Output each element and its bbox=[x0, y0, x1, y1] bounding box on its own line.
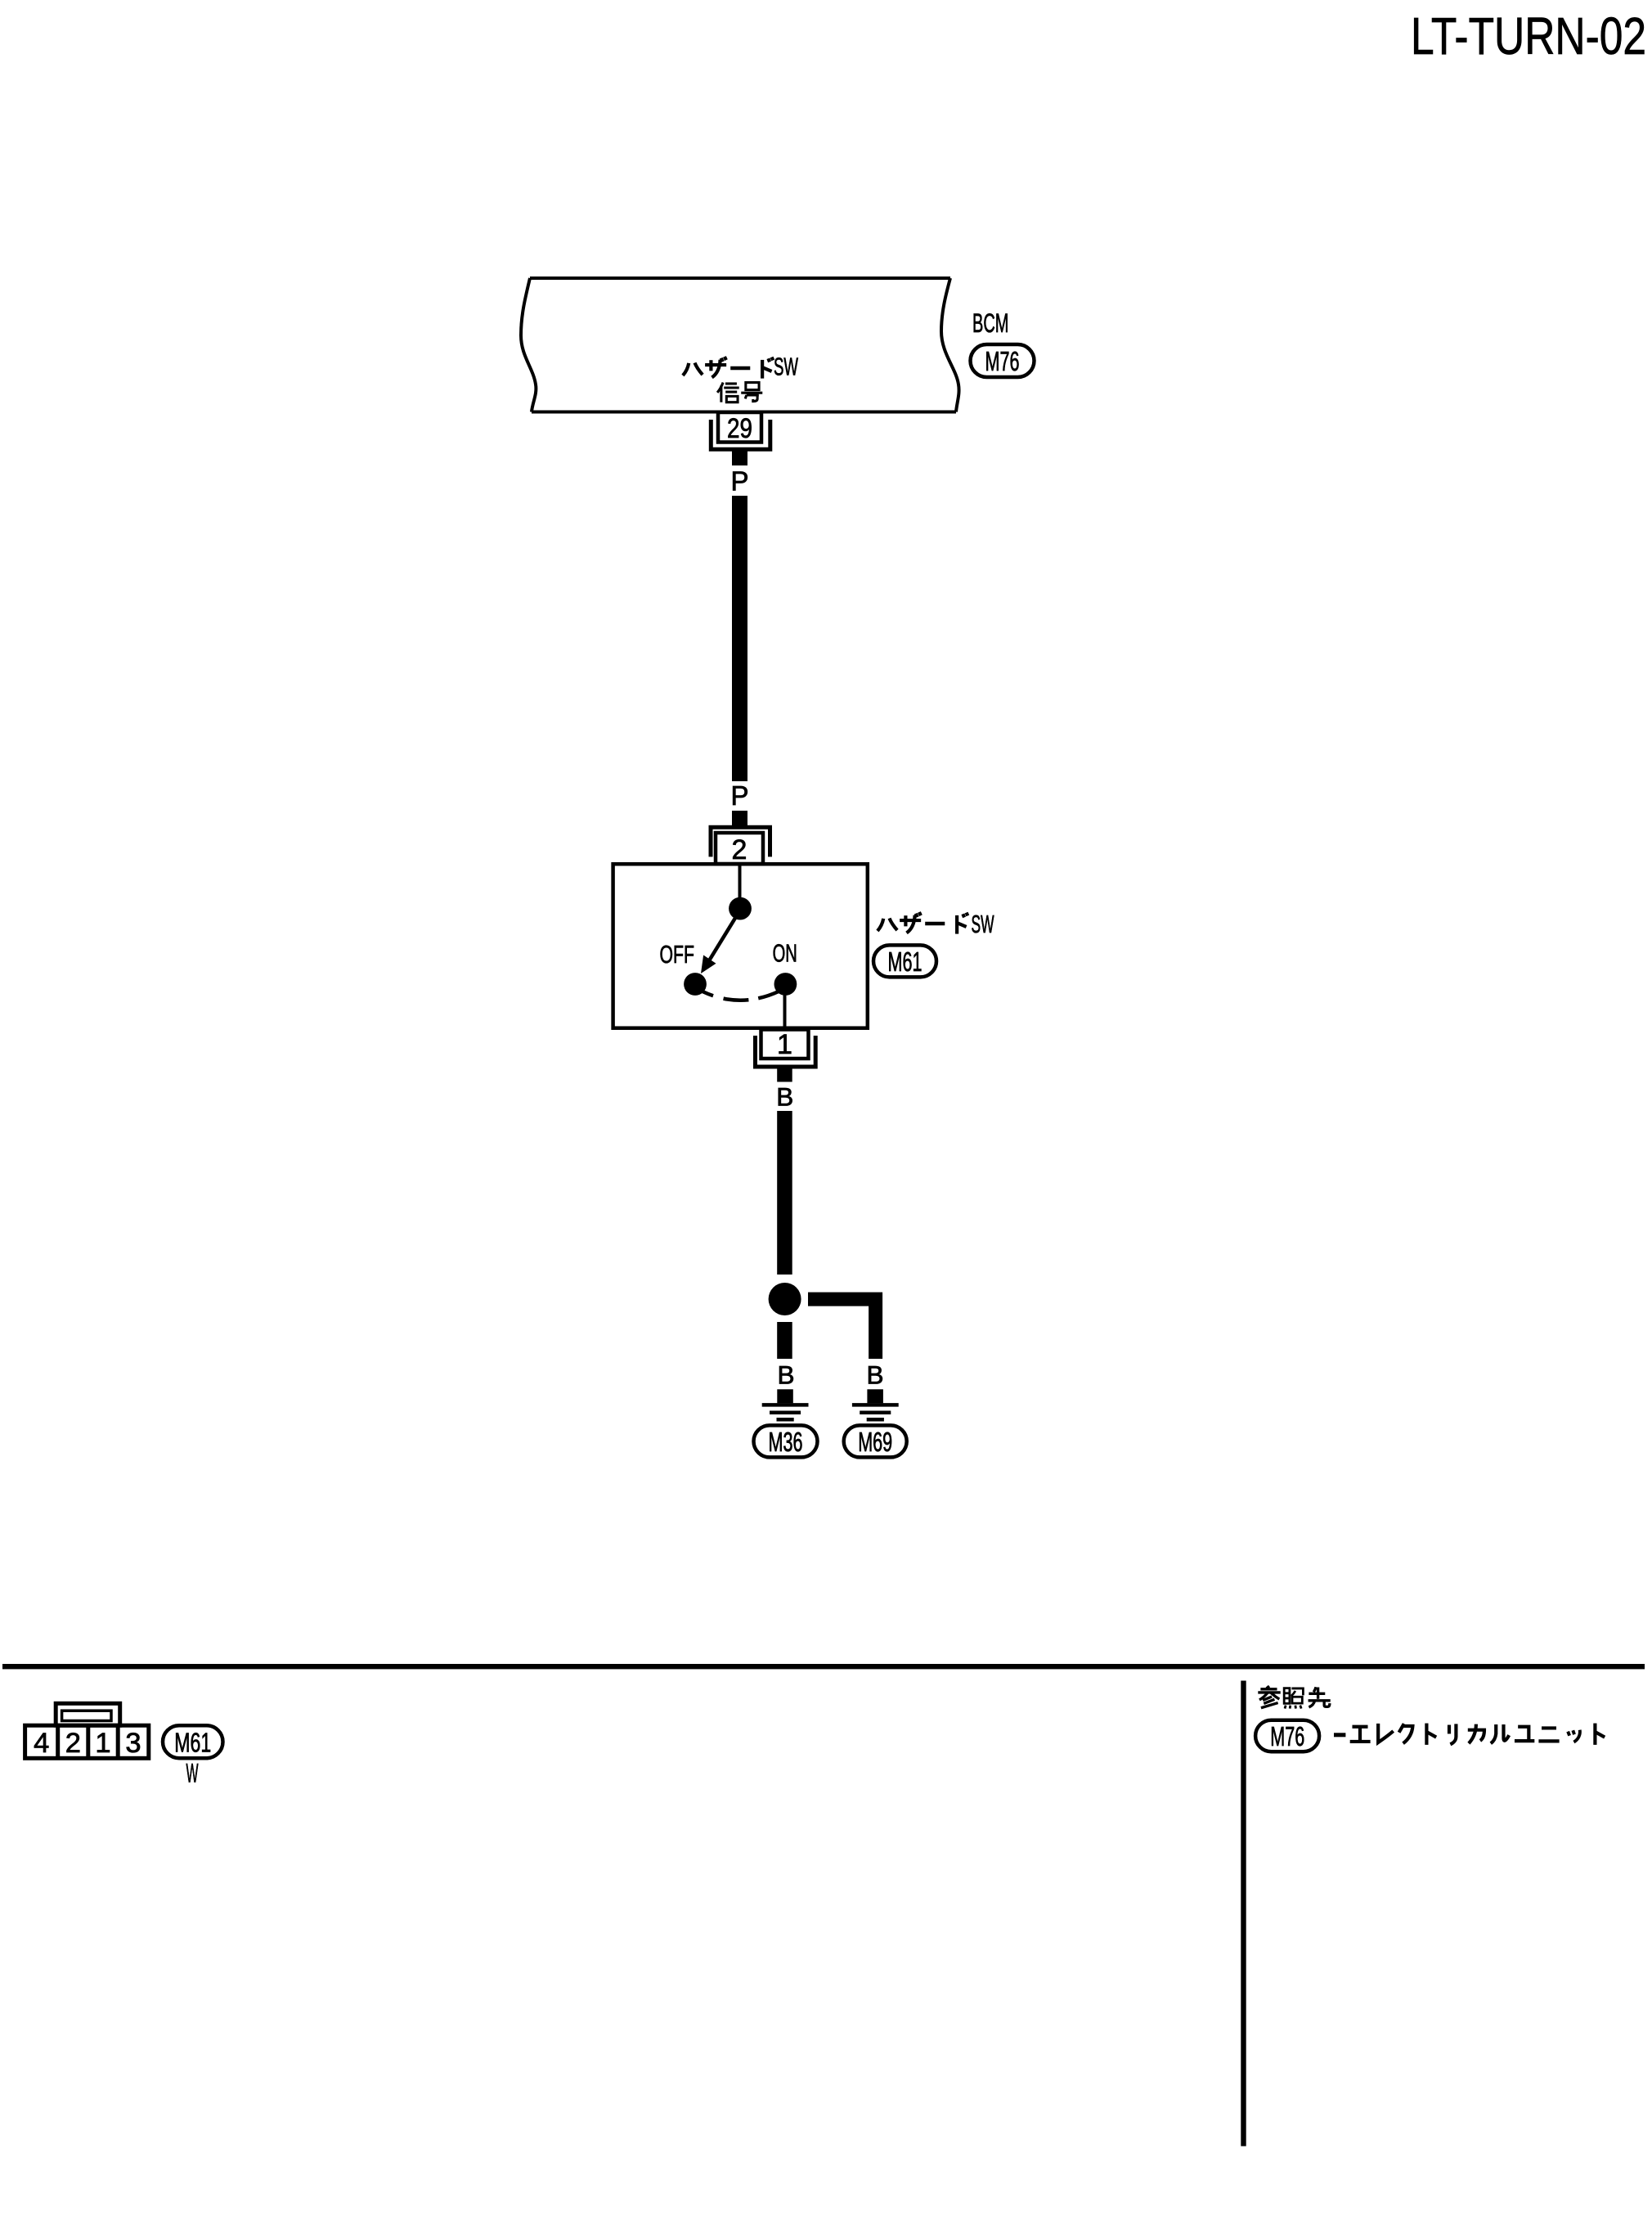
wire P (BCM to hazard SW) bbox=[732, 496, 747, 781]
vertical divider line bbox=[1241, 1681, 1246, 2147]
dashed travel arc bbox=[703, 991, 779, 1000]
connector face M61 pinout bbox=[25, 1703, 149, 1758]
label 信号 (inside BCM box) bbox=[717, 383, 762, 402]
wire to M36 ground bbox=[777, 1322, 792, 1359]
svg-text:1: 1 bbox=[95, 1728, 110, 1759]
switch arm arrow (to OFF) bbox=[701, 915, 737, 973]
BCM box M76 (wavy-edged component outline) bbox=[521, 278, 959, 412]
ground symbol M36 bbox=[762, 1389, 809, 1419]
connector oval M61 bbox=[873, 945, 936, 977]
svg-text:3: 3 bbox=[125, 1728, 141, 1759]
svg-text:M69: M69 bbox=[858, 1427, 892, 1457]
svg-text:29: 29 bbox=[727, 413, 752, 444]
wire from pin 2 to common contact bbox=[738, 865, 742, 897]
svg-text:SW: SW bbox=[774, 354, 798, 381]
wire stub below pin 1 bbox=[777, 1069, 792, 1082]
hazard switch box M61 bbox=[613, 864, 868, 1028]
svg-text:SW: SW bbox=[972, 911, 994, 938]
svg-text:M36: M36 bbox=[769, 1427, 803, 1457]
ground oval M36 bbox=[754, 1425, 818, 1457]
ground symbol M69 bbox=[852, 1389, 899, 1419]
svg-text:M61: M61 bbox=[888, 946, 923, 977]
svg-text:OFF: OFF bbox=[660, 942, 695, 969]
label ハザードSW (next to switch box) bbox=[878, 911, 994, 938]
svg-text:2: 2 bbox=[65, 1728, 81, 1759]
svg-text:B: B bbox=[776, 1082, 793, 1112]
junction node bbox=[769, 1283, 801, 1315]
pin numbers 4 2 1 3 bbox=[34, 1728, 141, 1759]
connector oval M76 bbox=[971, 344, 1035, 377]
svg-text:B: B bbox=[866, 1360, 883, 1390]
label -エレクトリカルユニット bbox=[1334, 1724, 1605, 1745]
wire stub above pin 2 bbox=[732, 811, 747, 825]
label 参照先 bbox=[1258, 1686, 1330, 1708]
svg-text:M76: M76 bbox=[985, 346, 1020, 376]
svg-text:ON: ON bbox=[773, 941, 797, 968]
horizontal separator line bbox=[2, 1664, 1645, 1669]
label ハザードSW (inside BCM box) bbox=[683, 354, 798, 381]
svg-text:LT-TURN-02: LT-TURN-02 bbox=[1411, 7, 1646, 65]
svg-text:M61: M61 bbox=[174, 1728, 211, 1758]
svg-text:B: B bbox=[777, 1360, 794, 1390]
svg-text:4: 4 bbox=[34, 1728, 49, 1759]
svg-text:W: W bbox=[186, 1759, 199, 1788]
ON contact bbox=[774, 973, 797, 996]
svg-text:P: P bbox=[730, 780, 748, 811]
ground oval M69 bbox=[844, 1425, 907, 1457]
branch wire to M69 ground bbox=[808, 1299, 876, 1359]
switch common contact bbox=[729, 897, 752, 920]
svg-text:M76: M76 bbox=[1270, 1721, 1304, 1751]
OFF contact bbox=[684, 973, 707, 996]
svg-text:BCM: BCM bbox=[972, 308, 1008, 338]
connector oval M61 (legend) bbox=[163, 1725, 223, 1758]
pin 1 terminal box bbox=[756, 1029, 816, 1067]
connector oval M76 (reference) bbox=[1255, 1720, 1319, 1752]
pin 29 terminal box bbox=[711, 412, 770, 449]
wire B (pin 1 to ground junction) bbox=[777, 1111, 792, 1275]
svg-text:P: P bbox=[730, 466, 748, 497]
svg-text:2: 2 bbox=[732, 834, 747, 865]
svg-text:1: 1 bbox=[777, 1029, 792, 1060]
wire stub below pin 29 bbox=[732, 452, 747, 466]
wire from ON contact to pin 1 bbox=[783, 990, 787, 1027]
pin 2 terminal box bbox=[711, 827, 770, 865]
